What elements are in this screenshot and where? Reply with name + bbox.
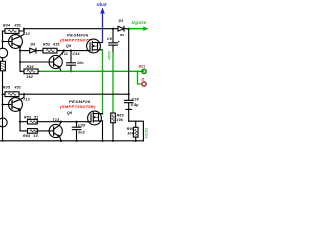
wire green source/phase rail y=71.3 [40,70,143,72]
node C6/R63 vertical on green rail [112,70,114,72]
wire Q6 source to ground rail [102,121,104,141]
capacitor C34 [67,51,76,72]
svg-text:T11: T11 [62,52,69,56]
diode D3 bootstrap [118,26,129,31]
svg-text:Ugate: Ugate [132,20,147,25]
svg-text:2k2: 2k2 [26,75,34,79]
resistor R34 [3,29,25,34]
svg-text:47µ/63: 47µ/63 [145,128,149,139]
resistor R53 [20,119,88,124]
mosfet Q5 [87,39,103,53]
svg-text:T12: T12 [23,97,30,101]
node R63 on ground rail [112,140,114,142]
svg-text:0.5µ: 0.5µ [131,103,139,107]
Q6 body arrow [94,116,96,118]
node R35/T12 collector junction [23,93,25,95]
wire J1 drop from green rail [138,71,142,84]
connector pad J1 (red ring) [142,82,146,86]
node T11 collector tap [63,50,65,52]
resistor R64 (vertical) [133,121,138,141]
T11 emitter arrow [57,65,60,67]
wire emitter node down to R36 with T11 base branch [20,51,49,72]
Ugate arrow head [143,27,148,31]
svg-text:45/50: 45/50 [108,51,112,60]
transistor T10 [3,29,25,51]
transistor T12 [3,94,25,113]
node R35 left tap on bus [2,93,4,95]
resistor R52 [43,48,87,53]
svg-text:415: 415 [52,42,60,46]
wire green phase vertical Q5 source to Q6 drain [102,50,104,114]
wire lower driver supply rail y=94.2 [24,93,129,95]
capacitor C35 [72,122,80,141]
svg-text:D8: D8 [31,42,36,46]
svg-text:Q6: Q6 [67,111,72,115]
node Q6 source on ground rail [101,140,103,142]
transistor T13 [49,122,62,141]
svg-text:C29: C29 [132,98,139,102]
diode D8 [20,48,43,53]
resistor R36 [20,69,40,74]
svg-text:10k: 10k [117,118,124,122]
svg-text:10n: 10n [77,61,84,65]
svg-text:R53: R53 [24,116,31,120]
svg-text:R34: R34 [3,24,10,28]
node T10 base tap [2,41,4,43]
T10 emitter arrow [18,45,21,47]
node rail/R34/T10 collector junction [23,28,25,30]
wire left vertical bus x=2.5 [2,31,4,141]
node C35 on ground rail [75,140,77,142]
svg-text:T10: T10 [23,32,30,36]
Ubat arrow head [100,8,105,14]
svg-text:D3: D3 [119,19,124,23]
node C34 tap [70,50,72,52]
svg-text:51: 51 [34,116,38,120]
svg-text:R63: R63 [117,114,124,118]
svg-text:(DMPP75N075B): (DMPP75N075B) [60,104,96,109]
wire green C6 to R63 vertical [112,52,114,113]
resistor R35 [3,92,25,97]
svg-text:Ubat: Ubat [97,2,108,7]
svg-text:C34: C34 [73,52,80,56]
svg-text:C6: C6 [107,37,112,41]
node T12 base tap [2,104,4,106]
node C34 on green rail [70,70,72,72]
node D3 cathode junction [128,28,130,30]
Q5 body arrow [93,45,95,47]
wire green Ugate output with arrow [129,28,144,30]
svg-text:451: 451 [14,86,22,90]
svg-text:T13: T13 [53,118,60,122]
wire ground bottom rail [0,140,143,142]
svg-text:R64: R64 [127,127,134,131]
resistor R54 [20,129,49,134]
wire T12 emitter down to gate resistor rows [19,114,21,131]
svg-text:C35: C35 [78,123,85,127]
node row1 tap [19,121,21,123]
wire D3 junction down to lower driver rail [128,29,130,95]
mosfet Q6 [88,111,103,125]
wire R64 loop top and right side [129,121,144,141]
node base branch [19,61,21,63]
wire Ubat blue feed to Q5 drain [102,13,104,43]
capacitor C29 snubber [124,94,133,109]
svg-text:J1: J1 [141,78,145,82]
node T13 emitter on ground rail [60,140,62,142]
C29 bottom bar junction [126,108,132,110]
capacitor C6 bootstrap [109,29,118,53]
svg-text:B81: B81 [139,65,146,69]
svg-text:451: 451 [14,24,22,28]
svg-text:W1: W1 [120,33,125,37]
wire top bootstrap rail y=28.7 [24,28,118,30]
node C6 tap on top rail [112,28,114,30]
svg-text:R36: R36 [27,65,34,69]
svg-text:R52: R52 [43,42,50,46]
node C29 tap [128,93,130,95]
node R64 on ground rail [135,140,137,142]
resistor R63 (vertical) [111,113,116,141]
wire C29 to R64 loop [128,109,130,121]
connector stub circle (cut at left edge, lower) [0,118,7,127]
T13 emitter arrow [57,134,60,136]
svg-text:3n3: 3n3 [78,131,85,135]
connector stub circle (cut at left edge, upper) [0,48,8,58]
svg-text:R35: R35 [3,86,10,90]
svg-text:10: 10 [34,134,38,138]
transistor T11 [49,51,64,72]
T12 emitter arrow [18,107,21,109]
svg-text:Q5: Q5 [66,44,71,48]
C6 polarity dot [118,41,119,42]
node phase vertical on green rail [101,70,103,72]
node T13 collector tap [60,121,62,123]
node left bus on ground rail [2,140,4,142]
resistor stub box (cut at left edge) [0,61,5,71]
node T10 emitter junction [19,50,21,52]
connector pad B81 (green ring) [142,69,146,73]
svg-text:10k: 10k [127,132,134,136]
svg-text:R54: R54 [23,134,30,138]
node C35 tap [75,121,77,123]
